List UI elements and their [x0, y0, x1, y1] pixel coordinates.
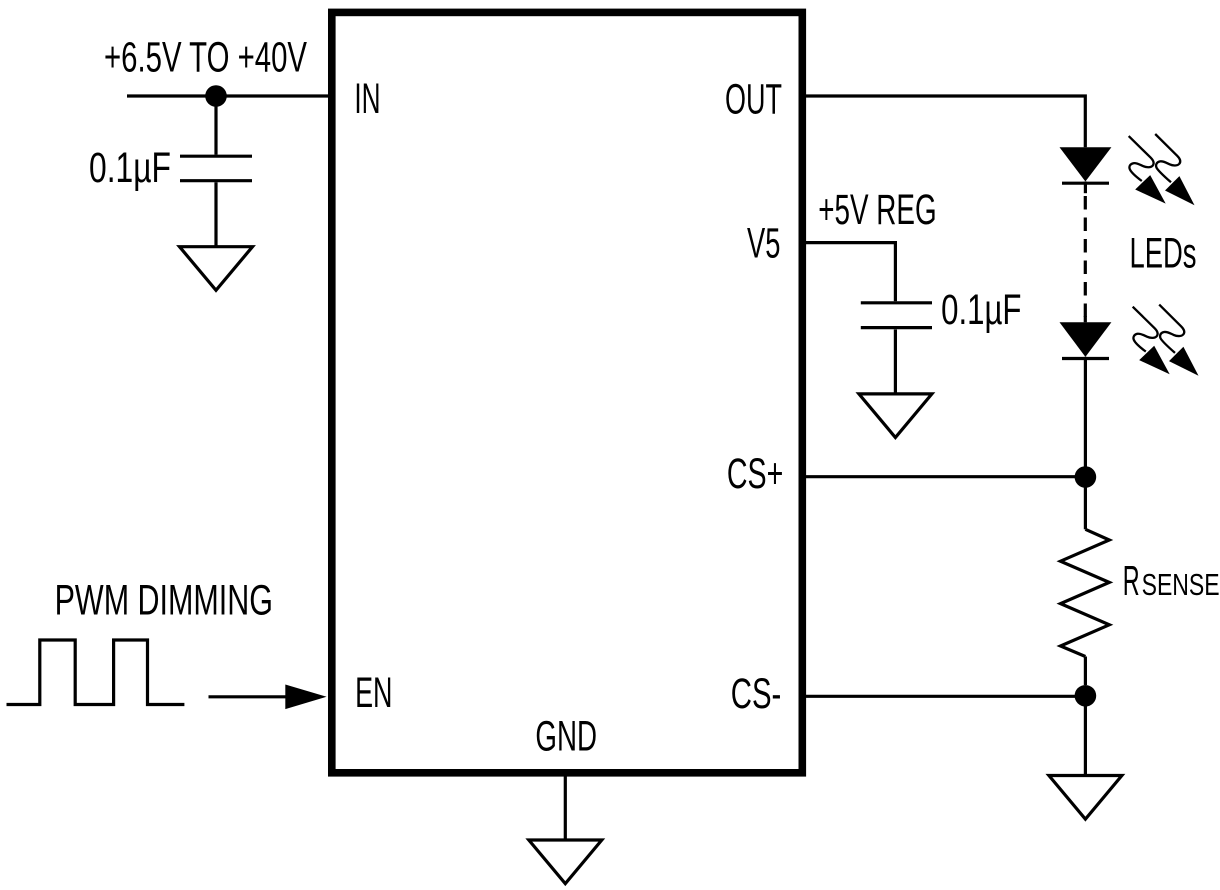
- IC U1 body: [332, 12, 803, 772]
- svg-text:CS-: CS-: [731, 670, 782, 717]
- LED D1 light rays: [1129, 134, 1195, 205]
- svg-text:EN: EN: [355, 669, 392, 716]
- wire EN arrow shaft: [209, 695, 291, 698]
- LED D1: [1060, 147, 1112, 193]
- svg-text:V5: V5: [747, 220, 780, 267]
- ground symbol at C1: [180, 247, 253, 291]
- wire VIN input to IN pin: [127, 94, 329, 97]
- wire dashed LED string continuation: [1084, 196, 1087, 318]
- resistor RSENSE: [1061, 487, 1110, 685]
- svg-text:IN: IN: [354, 75, 380, 122]
- wire OUT pin to LED string: [805, 96, 1085, 147]
- wire VIN node to C1: [214, 96, 217, 155]
- svg-text:CS+: CS+: [727, 450, 783, 497]
- wire C1 to ground: [214, 182, 217, 247]
- wire V5 pin to C2: [805, 243, 895, 302]
- svg-text:LEDs: LEDs: [1130, 229, 1197, 276]
- svg-text:GND: GND: [535, 712, 597, 759]
- svg-text:+6.5V TO +40V: +6.5V TO +40V: [104, 34, 308, 81]
- LED D2: [1060, 316, 1112, 359]
- wire C2 to ground: [894, 330, 897, 395]
- node CS- junction dot: [1075, 685, 1097, 707]
- PWM waveform: [7, 640, 185, 705]
- svg-text:+5V REG: +5V REG: [818, 186, 936, 233]
- svg-text:0.1µF: 0.1µF: [89, 144, 171, 191]
- EN arrowhead: [285, 685, 326, 710]
- svg-text:0.1µF: 0.1µF: [941, 286, 1021, 333]
- wire GND pin to ground: [564, 776, 567, 840]
- wire CS- pin to node: [805, 695, 1085, 698]
- LED D2 light rays: [1133, 305, 1199, 376]
- capacitor C1: [180, 156, 252, 181]
- svg-text:SENSE: SENSE: [1142, 567, 1220, 602]
- ground symbol at RSENSE: [1049, 776, 1122, 820]
- label RSENSE: [1123, 558, 1220, 604]
- wire D2 cathode to CS+ node: [1084, 357, 1087, 468]
- svg-text:PWM DIMMING: PWM DIMMING: [55, 576, 273, 623]
- wire CS+ pin to node: [805, 475, 1085, 478]
- node VIN junction dot: [205, 85, 227, 107]
- ground symbol at GND pin: [529, 840, 602, 884]
- wire CS- node to ground: [1084, 705, 1087, 776]
- ground symbol at C2: [859, 394, 932, 438]
- capacitor C2: [861, 303, 932, 328]
- node CS+ junction dot: [1075, 466, 1097, 488]
- svg-text:OUT: OUT: [725, 75, 782, 122]
- svg-text:R: R: [1123, 558, 1140, 604]
